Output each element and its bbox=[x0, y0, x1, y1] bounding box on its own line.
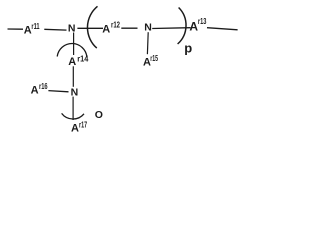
label Ar11 bbox=[24, 22, 40, 36]
svg-text:N: N bbox=[68, 22, 76, 34]
svg-text:r13: r13 bbox=[198, 17, 207, 26]
wire Ar11 to N1 bbox=[44, 28, 66, 31]
open parenthesis bbox=[87, 6, 97, 48]
wire N1 down to Ar14 bbox=[73, 33, 75, 56]
wire N2 through close bracket to Ar13 bbox=[152, 27, 190, 30]
wire N2 down to Ar15 bbox=[146, 32, 149, 54]
svg-text:r15: r15 bbox=[150, 54, 158, 63]
svg-text:r17: r17 bbox=[79, 121, 87, 130]
attachment arc over Ar17 bbox=[62, 113, 84, 119]
svg-text:A: A bbox=[71, 123, 79, 135]
close parenthesis bbox=[178, 8, 186, 45]
label Ar16 bbox=[31, 82, 48, 96]
attachment arc over Ar14 bbox=[57, 44, 87, 57]
svg-text:r11: r11 bbox=[31, 22, 40, 31]
label Ar12 bbox=[102, 21, 120, 36]
wire right end bond bbox=[207, 28, 238, 30]
wire N1 to bracket bbox=[77, 27, 103, 29]
svg-text:A: A bbox=[31, 85, 39, 97]
label Ar15 bbox=[143, 54, 158, 68]
wire N3 down to Ar17 bbox=[72, 97, 74, 120]
svg-text:r16: r16 bbox=[39, 82, 48, 91]
wire Ar12 to N2 bbox=[121, 27, 137, 29]
svg-text:O: O bbox=[95, 109, 103, 121]
svg-text:p: p bbox=[184, 41, 192, 56]
svg-text:N: N bbox=[144, 22, 152, 34]
svg-text:A: A bbox=[102, 24, 110, 36]
label Ar14 bbox=[68, 54, 88, 69]
svg-text:r14: r14 bbox=[77, 54, 88, 64]
svg-text:r12: r12 bbox=[111, 21, 120, 30]
label Ar17 bbox=[71, 121, 87, 135]
wire left end bond bbox=[8, 28, 24, 30]
wire Ar14 down to N3 bbox=[72, 66, 74, 87]
svg-text:A: A bbox=[68, 56, 76, 68]
svg-text:N: N bbox=[71, 86, 79, 98]
wire Ar16 to N3 bbox=[48, 91, 68, 92]
label Ar13 bbox=[189, 17, 206, 34]
